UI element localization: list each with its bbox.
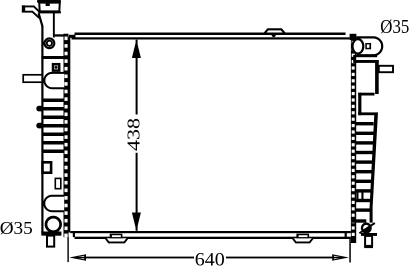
svg-text:Ø35: Ø35 <box>0 218 33 238</box>
svg-text:Ø35: Ø35 <box>380 17 409 38</box>
svg-text:640: 640 <box>195 250 225 267</box>
svg-text:438: 438 <box>124 118 144 151</box>
